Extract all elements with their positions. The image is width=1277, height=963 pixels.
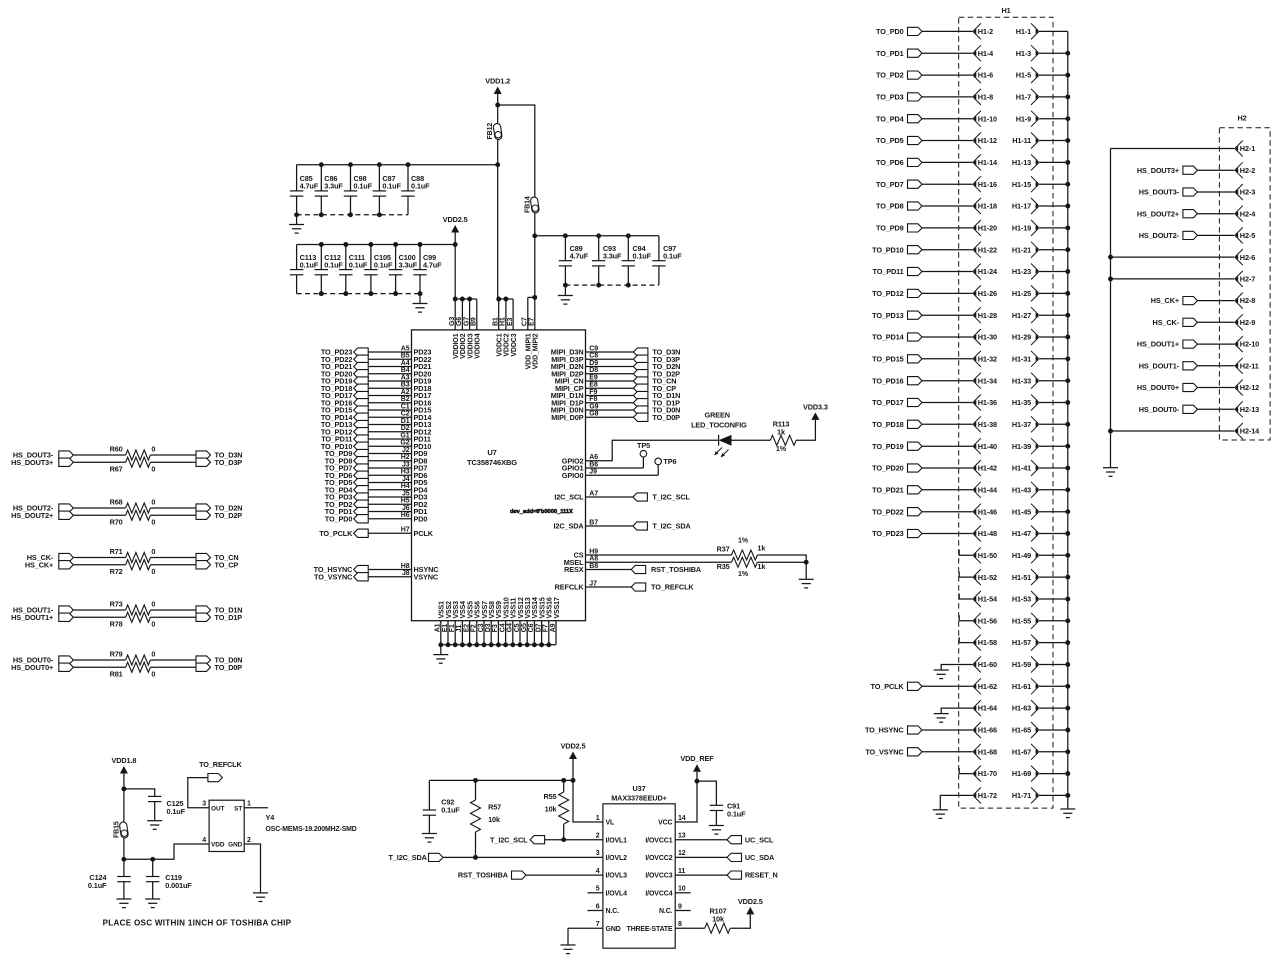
net flag TO_D3N <box>196 451 242 460</box>
H1 pin H1-9 <box>1016 111 1068 127</box>
U7 pin PD22 row <box>321 353 432 364</box>
junction bottom C85 <box>294 212 299 217</box>
H1 pin H1-6 <box>973 67 993 83</box>
junction bus H1-11 <box>1065 138 1070 143</box>
svg-text:PCLK: PCLK <box>414 529 434 538</box>
svg-text:TO_PD13: TO_PD13 <box>872 311 904 320</box>
svg-text:HS_DOUT1+: HS_DOUT1+ <box>11 613 53 622</box>
svg-text:C4: C4 <box>499 623 506 632</box>
U7 top pin names <box>453 333 540 369</box>
net flag TO_D2N <box>196 504 242 513</box>
capacitor C93 3.3uF <box>592 236 622 285</box>
wire VDD_MIPI capacitor rail <box>535 235 659 237</box>
H1 pin H1-57 <box>1012 635 1068 651</box>
svg-text:H1-17: H1-17 <box>1012 202 1031 211</box>
svg-text:1: 1 <box>596 815 600 822</box>
U7 pin PD4 row <box>325 483 429 494</box>
svg-text:TO_PD0: TO_PD0 <box>325 514 353 523</box>
U7 pin VSYNC row <box>314 570 439 581</box>
wire to C125 <box>124 789 155 797</box>
svg-text:MAX3378EEUD+: MAX3378EEUD+ <box>611 794 667 803</box>
U7 pin PCLK row <box>319 527 434 538</box>
H2 ground bus wire <box>1110 149 1112 468</box>
svg-text:HS_DOUT2+: HS_DOUT2+ <box>11 511 53 520</box>
U7 pin GPIO2 row / wire to LED <box>562 440 719 465</box>
svg-text:TO_PD15: TO_PD15 <box>872 354 904 363</box>
H1 pin H1-50 <box>973 547 997 563</box>
wire U37 GND down <box>567 928 569 945</box>
ground H1-72 <box>933 810 948 819</box>
svg-text:B3: B3 <box>401 382 410 389</box>
wire to FB14 <box>498 105 535 190</box>
H1 pin H1-12 <box>973 133 997 149</box>
svg-text:FB15: FB15 <box>113 821 120 838</box>
svg-text:TO_PD20: TO_PD20 <box>872 464 904 473</box>
svg-text:VSS2: VSS2 <box>446 601 453 619</box>
junction bus H1-29 <box>1065 335 1070 340</box>
svg-text:D9: D9 <box>589 360 598 367</box>
U7 pin PD18 row <box>321 382 432 393</box>
svg-text:VDD2.5: VDD2.5 <box>738 897 763 906</box>
H1 pin H1-67 <box>1012 744 1068 760</box>
svg-text:H1-7: H1-7 <box>1016 93 1031 102</box>
junction bus H1-3 <box>1065 51 1070 56</box>
U7 pin MSEL row / resistor R35 <box>564 556 806 578</box>
svg-text:B5: B5 <box>401 353 410 360</box>
svg-text:H1-4: H1-4 <box>978 49 994 58</box>
net flag HS_DOUT0+ <box>1137 383 1235 392</box>
svg-text:LED_TOCONFIG: LED_TOCONFIG <box>691 421 747 430</box>
U7 pin MIPI_CP row <box>555 382 676 393</box>
svg-text:0: 0 <box>151 600 155 609</box>
svg-text:I2C_SDA: I2C_SDA <box>554 522 585 531</box>
junction H2-14 <box>1108 429 1113 434</box>
svg-text:H1-28: H1-28 <box>978 311 997 320</box>
wire C85 bank bottom dashed rail <box>297 214 408 216</box>
U7 pin PD6 row <box>325 469 428 480</box>
wire H2-6 to ground bus <box>1111 256 1235 258</box>
svg-text:G3: G3 <box>449 317 456 326</box>
ground below C91 <box>709 826 724 835</box>
wire Y4 GND pin <box>244 844 260 893</box>
svg-text:H6: H6 <box>401 512 410 519</box>
svg-text:VDD: VDD <box>211 842 225 849</box>
net flag TO_CP <box>196 560 238 569</box>
svg-text:R68: R68 <box>110 498 123 507</box>
svg-text:H5: H5 <box>401 498 410 505</box>
H1 pin H1-7 <box>1016 89 1068 105</box>
svg-text:I/OVL1: I/OVL1 <box>606 837 628 844</box>
svg-text:H1: H1 <box>1001 6 1010 15</box>
oscillator Y4 body <box>209 800 244 851</box>
H2 pin H2-1 <box>1235 141 1255 157</box>
svg-text:H1-21: H1-21 <box>1012 245 1031 254</box>
svg-text:I/OVCC1: I/OVCC1 <box>645 837 672 844</box>
svg-text:H1-9: H1-9 <box>1016 114 1031 123</box>
H1 pin H1-68 <box>973 744 997 760</box>
H2 pin H2-9 <box>1235 314 1255 330</box>
svg-text:H1-71: H1-71 <box>1012 791 1031 800</box>
svg-text:R60: R60 <box>110 445 123 454</box>
ground H1-64 <box>934 714 949 723</box>
junction bottom C112 <box>319 291 324 296</box>
svg-text:TO_PD4: TO_PD4 <box>876 114 905 123</box>
U7 pin PD19 row <box>321 374 432 385</box>
U37 pin names and numbers <box>596 815 686 933</box>
H1 pin H1-60 <box>973 657 997 673</box>
junction C87 top <box>377 162 382 167</box>
svg-text:0.1uF: 0.1uF <box>374 260 393 269</box>
svg-text:H1-72: H1-72 <box>978 791 997 800</box>
junction VDDIO <box>467 297 472 302</box>
Y4 reference labels <box>266 813 357 833</box>
svg-text:9: 9 <box>678 903 682 910</box>
H2 pin H2-12 <box>1235 380 1259 396</box>
svg-text:TO_D0P: TO_D0P <box>215 663 243 672</box>
svg-text:B6: B6 <box>589 461 598 468</box>
capacitor C105 0.1uF <box>364 245 393 294</box>
wire VDD1.8 to FB15 <box>123 789 125 859</box>
junction bus H1-13 <box>1065 160 1070 165</box>
ground below C113 bank <box>413 304 428 313</box>
resistor R68 0 ohm on HS_DOUT2- <box>13 498 196 513</box>
svg-text:H1-20: H1-20 <box>978 224 997 233</box>
svg-text:H1-36: H1-36 <box>978 398 997 407</box>
net flag TO_PD8 <box>876 202 973 211</box>
junction VDD_MIPI <box>532 295 537 300</box>
wire down to VDD_MIPI pins <box>534 236 536 298</box>
junction VDDC2 <box>503 297 508 302</box>
svg-text:HS_DOUT3+: HS_DOUT3+ <box>11 458 53 467</box>
wire H1-72 to ground <box>940 795 973 809</box>
test point TP6 <box>655 457 677 475</box>
svg-text:G1: G1 <box>400 432 409 439</box>
capacitor C87 0.1uF <box>373 165 402 215</box>
net flag TO_D1N <box>196 606 242 615</box>
junction C89 rail <box>532 233 537 238</box>
svg-text:D8: D8 <box>589 367 598 374</box>
svg-text:H1-12: H1-12 <box>978 136 997 145</box>
U7 pin REFCLK row <box>555 580 695 591</box>
H1 pin H1-52 <box>973 569 997 585</box>
svg-text:TO_PD2: TO_PD2 <box>876 71 904 80</box>
U7 pin PD5 row <box>325 476 428 487</box>
junction bus H1-51 <box>1065 575 1070 580</box>
net flag HS_DOUT1+ <box>1137 340 1235 349</box>
svg-text:0.1uF: 0.1uF <box>633 251 652 260</box>
wire rail to VL pin <box>573 780 603 822</box>
svg-text:A8: A8 <box>589 556 598 563</box>
junction H2-7 <box>1108 276 1113 281</box>
junction bus H1-5 <box>1065 73 1070 78</box>
U7 pin I2C_SDA row <box>554 519 692 530</box>
svg-text:VSS1: VSS1 <box>439 601 446 619</box>
U7 pin PD2 row <box>325 498 428 509</box>
H1 pin H1-44 <box>973 482 998 498</box>
svg-text:G5: G5 <box>521 623 528 632</box>
svg-text:H1-30: H1-30 <box>978 333 997 342</box>
wire to C91 <box>697 781 716 805</box>
Y4 pin labels <box>202 801 251 849</box>
svg-text:H1-42: H1-42 <box>978 464 997 473</box>
svg-text:A3: A3 <box>401 374 410 381</box>
svg-text:0.1uF: 0.1uF <box>382 182 401 191</box>
svg-text:J1: J1 <box>456 625 463 633</box>
svg-text:4: 4 <box>596 868 600 875</box>
svg-text:THREE-STATE: THREE-STATE <box>627 926 673 933</box>
H1 pin H1-25 <box>1012 285 1068 301</box>
svg-text:TO_VSYNC: TO_VSYNC <box>865 747 904 756</box>
svg-text:B9: B9 <box>471 317 478 326</box>
H1 pin H1-33 <box>1012 373 1068 389</box>
junction VDD1.8 node <box>121 786 126 791</box>
H1 pin H1-27 <box>1012 307 1068 323</box>
svg-text:U37: U37 <box>632 784 645 793</box>
svg-text:A7: A7 <box>589 490 598 497</box>
svg-text:F3: F3 <box>492 624 499 632</box>
svg-text:H1-38: H1-38 <box>978 420 997 429</box>
svg-text:G6: G6 <box>456 317 463 326</box>
svg-text:G8: G8 <box>589 411 598 418</box>
net flag TO_D3P <box>196 458 242 467</box>
resistor R70 0 ohm on HS_DOUT2+ <box>11 510 196 526</box>
wire stub H1-70 <box>959 768 973 774</box>
wire VDDC tie <box>498 298 513 300</box>
H1 pin H1-71 <box>1012 787 1068 803</box>
svg-text:TO_PD21: TO_PD21 <box>872 485 904 494</box>
U37 reference label <box>611 784 667 803</box>
wire to Y4 VDD pin <box>124 844 209 859</box>
U7 pin PD1 row <box>325 505 428 516</box>
svg-text:H1-62: H1-62 <box>978 682 997 691</box>
svg-text:J3: J3 <box>402 461 410 468</box>
svg-text:H1-35: H1-35 <box>1012 398 1031 407</box>
svg-text:H1-32: H1-32 <box>978 354 997 363</box>
resistor R79 0 ohm on HS_DOUT0- <box>13 650 196 665</box>
svg-text:10k: 10k <box>712 915 725 924</box>
junction C100 top <box>393 242 398 247</box>
H1 pin H1-30 <box>973 329 997 345</box>
svg-text:F8: F8 <box>589 396 597 403</box>
junction bottom C98 <box>348 212 353 217</box>
svg-text:G9: G9 <box>589 403 598 410</box>
junction H2-6 <box>1108 255 1113 260</box>
H2 pin H2-14 <box>1235 423 1260 439</box>
svg-text:E2: E2 <box>463 624 470 633</box>
svg-text:8: 8 <box>678 921 682 928</box>
junction rail VDD2.5 <box>571 778 576 783</box>
svg-text:U7: U7 <box>487 448 496 457</box>
svg-text:GREEN: GREEN <box>705 411 730 420</box>
junction VDD1.2 rail <box>495 162 500 167</box>
power VDD2.5 at R107 <box>738 897 763 915</box>
svg-text:PLACE OSC WITHIN 1INCH OF TOSH: PLACE OSC WITHIN 1INCH OF TOSHIBA CHIP <box>103 919 292 928</box>
junction bus H1-25 <box>1065 291 1070 296</box>
net flag TO_PD23 <box>872 529 973 538</box>
svg-text:H1-37: H1-37 <box>1012 420 1031 429</box>
wire stub NC left <box>588 910 603 912</box>
svg-text:R57: R57 <box>488 803 501 812</box>
wire R113 to VDD3.3 <box>796 420 815 440</box>
svg-text:14: 14 <box>678 815 686 822</box>
svg-text:VL: VL <box>606 820 616 827</box>
svg-text:H1-31: H1-31 <box>1012 354 1031 363</box>
svg-text:H1-61: H1-61 <box>1012 682 1031 691</box>
svg-text:VDDC3: VDDC3 <box>511 333 518 356</box>
net flag TO_CN <box>196 553 239 562</box>
wire C113 bank bottom dashed rail <box>297 293 420 295</box>
junction bottom C94 <box>626 283 631 288</box>
capacitor C92 0.1uF <box>423 780 461 833</box>
wire VDD_MIPI2 pin <box>534 297 536 330</box>
H2 pin H2-7 <box>1235 271 1255 287</box>
svg-text:TO_D3P: TO_D3P <box>215 458 243 467</box>
resistor R55 10k <box>543 780 568 839</box>
wire VDD1.2 capacitor rail <box>297 164 498 166</box>
svg-text:N.C.: N.C. <box>659 908 673 915</box>
svg-text:VSS16: VSS16 <box>547 597 554 618</box>
svg-text:H1-60: H1-60 <box>978 660 997 669</box>
svg-text:H4: H4 <box>401 483 410 490</box>
junction bus H1-69 <box>1065 771 1070 776</box>
U7 pin MIPI_D3N row <box>551 345 681 356</box>
net flag TO_PD6 <box>876 158 973 167</box>
svg-text:T_I2C_SDA: T_I2C_SDA <box>389 853 428 862</box>
H1 pin H1-49 <box>1012 547 1068 563</box>
H1 pin H1-18 <box>973 198 997 214</box>
svg-text:H1-24: H1-24 <box>978 267 998 276</box>
net flag TO_REFCLK at Y4 <box>199 760 242 782</box>
svg-text:HS_DOUT3-: HS_DOUT3- <box>1139 188 1180 197</box>
H1 pin H1-17 <box>1012 198 1068 214</box>
net flag TO_PD19 <box>872 442 973 451</box>
H2 pin H2-10 <box>1235 336 1259 352</box>
svg-text:H1-8: H1-8 <box>978 93 993 102</box>
resistor R57 10k <box>471 780 502 857</box>
svg-text:C3: C3 <box>478 623 485 632</box>
wire T_I2C_SDA to I/OVL2 <box>443 856 603 858</box>
wire to C124 <box>123 859 125 876</box>
svg-text:0: 0 <box>151 445 155 454</box>
net flag TO_PD15 <box>872 354 973 363</box>
capacitor C112 0.1uF <box>315 245 344 294</box>
svg-text:0: 0 <box>151 620 155 629</box>
svg-text:A5: A5 <box>401 345 410 352</box>
wire VDD2.5 stem U37 <box>572 759 574 780</box>
svg-text:4: 4 <box>202 837 206 844</box>
svg-text:H1-27: H1-27 <box>1012 311 1031 320</box>
U7 pin CS row / resistor R37 <box>574 538 807 563</box>
power VDD1.2 <box>485 77 510 95</box>
svg-text:VSS8: VSS8 <box>489 601 496 619</box>
svg-text:A4: A4 <box>401 360 410 367</box>
svg-text:A2: A2 <box>401 389 410 396</box>
junction FB15 node <box>121 857 126 862</box>
net flag TO_D2P <box>196 511 242 520</box>
svg-text:F9: F9 <box>589 389 597 396</box>
junction bus H1-65 <box>1065 728 1070 733</box>
svg-text:H9: H9 <box>589 548 598 555</box>
svg-text:HS_DOUT0+: HS_DOUT0+ <box>1137 383 1179 392</box>
wire to ground C85 <box>296 215 298 225</box>
net flag UC_SDA <box>675 853 775 862</box>
net flag TO_D1P <box>196 613 242 622</box>
net flag TO_PD18 <box>872 420 973 429</box>
svg-text:I2C_SCL: I2C_SCL <box>554 493 584 502</box>
junction bus H1-43 <box>1065 487 1070 492</box>
wire R107 to VDD2.5 <box>730 914 750 928</box>
svg-text:7: 7 <box>596 921 600 928</box>
net flag TO_PD2 <box>876 71 973 80</box>
svg-text:GND: GND <box>228 842 243 849</box>
net flag T_I2C_SCL at U37 <box>490 835 545 844</box>
svg-text:TO_PCLK: TO_PCLK <box>319 529 353 538</box>
svg-text:H1-40: H1-40 <box>978 442 997 451</box>
H1 pin H1-56 <box>973 613 997 629</box>
H1 pin H1-58 <box>973 635 997 651</box>
svg-text:TO_CP: TO_CP <box>215 560 239 569</box>
svg-text:VSYNC: VSYNC <box>414 572 439 581</box>
svg-text:C9: C9 <box>589 345 598 352</box>
junction C112 top <box>319 242 324 247</box>
net flag UC_SCL <box>675 835 774 844</box>
H1 pin H1-2 <box>973 23 993 39</box>
H1 pin H1-28 <box>973 307 997 323</box>
svg-text:VDDIO4: VDDIO4 <box>475 333 482 359</box>
svg-text:TO_PD1: TO_PD1 <box>876 49 904 58</box>
svg-text:0.1uF: 0.1uF <box>300 260 319 269</box>
junction bus H1-71 <box>1065 793 1070 798</box>
svg-text:TO_PD6: TO_PD6 <box>876 158 904 167</box>
capacitor C125 0.1uF <box>148 796 186 820</box>
svg-text:J6: J6 <box>402 505 410 512</box>
svg-text:H1-56: H1-56 <box>978 616 997 625</box>
svg-text:VSS17: VSS17 <box>554 597 561 618</box>
ground below C89 bank <box>558 296 573 305</box>
svg-text:1%: 1% <box>738 571 749 578</box>
svg-text:D1: D1 <box>401 418 410 425</box>
svg-text:C8: C8 <box>589 353 598 360</box>
junction R57 top <box>473 778 478 783</box>
svg-text:C7: C7 <box>522 317 529 326</box>
svg-text:0.1uF: 0.1uF <box>88 881 107 890</box>
svg-text:H1-58: H1-58 <box>978 638 997 647</box>
net flag HS_DOUT0- <box>1139 405 1235 414</box>
svg-text:H1-13: H1-13 <box>1012 158 1031 167</box>
wire Y4 OUT to TO_REFCLK <box>188 778 209 808</box>
U7 pin MIPI_CN row <box>555 374 677 385</box>
capacitor C113 0.1uF <box>290 245 319 294</box>
svg-text:R71: R71 <box>110 547 123 556</box>
capacitor C97 0.1uF <box>652 236 682 285</box>
svg-text:J8: J8 <box>402 570 410 577</box>
H1 pin H1-65 <box>1012 722 1068 738</box>
H1 pin H1-47 <box>1012 526 1068 542</box>
svg-text:R55: R55 <box>543 792 556 801</box>
svg-text:1%: 1% <box>738 538 749 545</box>
svg-text:1: 1 <box>247 801 251 808</box>
svg-text:TO_PD8: TO_PD8 <box>876 202 904 211</box>
resistor R113 1k <box>770 420 796 453</box>
H1 pin H1-5 <box>1016 67 1068 83</box>
net flag TO_PD7 <box>876 180 973 189</box>
svg-text:VSS3: VSS3 <box>453 601 460 619</box>
svg-text:J5: J5 <box>402 490 410 497</box>
H1 pin H1-21 <box>1012 242 1068 258</box>
svg-text:HS_DOUT0+: HS_DOUT0+ <box>11 663 53 672</box>
wire Y4 ST stub <box>244 807 268 809</box>
svg-text:GND: GND <box>606 926 621 933</box>
